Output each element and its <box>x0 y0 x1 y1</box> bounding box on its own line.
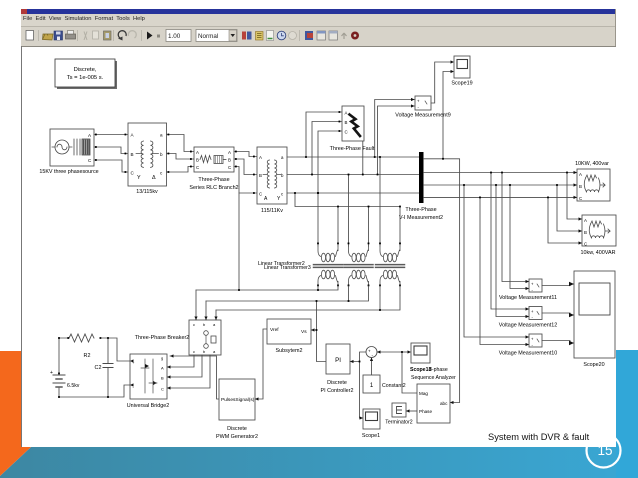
wire breaker bottom c to bridge C <box>167 355 210 388</box>
node dots source wires <box>95 134 126 173</box>
RLC branch block Three-Phase Series RLC Branch2 <box>189 147 238 191</box>
svg-text:Discrete: Discrete <box>227 426 247 432</box>
svg-text:Discrete: Discrete <box>327 380 347 386</box>
terminator Terminator2 <box>385 403 413 426</box>
node dot PI tee <box>359 361 361 363</box>
svg-text:C2: C2 <box>95 365 102 371</box>
wire DC bottom rail <box>59 385 130 397</box>
svg-text:6.5kv: 6.5kv <box>67 383 80 389</box>
wire constant to sum <box>371 358 373 375</box>
svg-text:Three-Phase: Three-Phase <box>405 207 436 213</box>
wire phase a T2 to bus <box>287 156 419 158</box>
svg-text:Series RLC Branch2: Series RLC Branch2 <box>189 185 238 191</box>
svg-text:A: A <box>228 150 231 155</box>
scope18 <box>410 343 456 381</box>
orange left bar <box>0 351 31 476</box>
source V1 15KV three phase source <box>39 129 98 175</box>
arrowhead scope18 input <box>408 350 412 353</box>
transformer TR1 13/115kv <box>128 123 167 195</box>
arrowhead PWM input <box>255 397 259 400</box>
riser VM abc sense <box>443 159 460 403</box>
subsystem Subsytem2 <box>267 319 311 354</box>
svg-text:A: A <box>196 150 199 155</box>
wire T1 b to RLC B <box>167 154 195 160</box>
svg-text:A: A <box>345 111 348 116</box>
breaker Three-Phase Breaker2 <box>135 320 221 355</box>
node dots LT line taps <box>317 156 401 207</box>
powergui block Discrete Ts <box>55 59 117 89</box>
wire fault tap B <box>312 122 342 175</box>
arrowhead scope1 input <box>360 416 364 419</box>
svg-text:B: B <box>345 120 348 125</box>
svg-text:PWM Generator2: PWM Generator2 <box>216 434 258 440</box>
svg-text:R2: R2 <box>84 353 91 359</box>
svg-text:Scope1: Scope1 <box>362 433 380 439</box>
cyan block right <box>616 350 638 478</box>
node dot scope19 riser junction <box>442 158 444 160</box>
wire PWM gate feedback <box>170 356 219 399</box>
node dots VM9 taps <box>374 156 379 175</box>
window canvas left border <box>21 46 22 447</box>
svg-text:Universal Bridge2: Universal Bridge2 <box>127 403 170 409</box>
wire RLC A to T2 A <box>234 152 257 157</box>
wire bus to load1 B <box>424 184 578 186</box>
svg-text:Voltage Measurement12: Voltage Measurement12 <box>499 323 557 329</box>
linear transformer LT2 <box>344 246 373 286</box>
wire Mag to sum <box>377 352 417 393</box>
constant Constant2 <box>363 375 406 393</box>
svg-text:B: B <box>228 158 231 163</box>
svg-text:PI: PI <box>335 357 341 364</box>
sense riser VM11 minus <box>510 185 529 289</box>
arrowhead terminator input <box>406 409 410 412</box>
svg-text:g: g <box>161 356 163 361</box>
svg-text:C: C <box>228 165 231 170</box>
sense riser VM12 minus <box>496 185 529 317</box>
VM10 voltage measurement10 <box>499 334 557 357</box>
wire load2 A riser <box>567 173 582 220</box>
svg-text:Voltage Measurement10: Voltage Measurement10 <box>499 351 557 357</box>
svg-text:3-phase: 3-phase <box>429 367 448 373</box>
arrowhead bridge plus <box>130 359 134 362</box>
node dot neutral tap <box>294 192 296 194</box>
wire VM9 minus tap <box>378 106 416 175</box>
scope20 <box>574 271 615 368</box>
svg-text:c: c <box>193 322 195 327</box>
wire DC top rail <box>59 338 130 361</box>
DVR injection line 1 <box>196 286 338 290</box>
svg-text:Phase: Phase <box>419 409 432 414</box>
svg-text:B: B <box>131 152 134 157</box>
svg-text:B: B <box>161 376 164 381</box>
arrowheads breaker top <box>194 317 217 321</box>
svg-text:c: c <box>193 349 195 354</box>
svg-text:C: C <box>161 387 164 392</box>
analyzer Discrete 3-phase Sequence Analyzer <box>417 384 450 423</box>
svg-text:Vref: Vref <box>270 327 279 333</box>
window chrome right edge <box>615 9 616 46</box>
arrowhead abc input <box>450 401 454 404</box>
linear transformer LT1 <box>314 246 343 286</box>
svg-text:PulsesSignal(s): PulsesSignal(s) <box>221 397 255 403</box>
wire load2 B riser <box>557 185 582 231</box>
VM9 voltage measurement9 <box>395 96 450 119</box>
sense riser VM10 minus <box>480 197 529 344</box>
node dots T1 outputs <box>168 134 192 173</box>
wire Vref riser to PWM input <box>255 329 267 399</box>
arrowheads load1 inputs <box>574 171 578 199</box>
wire RLC B to T2 B <box>234 159 257 175</box>
node dots sense taps <box>463 172 511 199</box>
page number circle <box>587 434 621 468</box>
arrowhead Vs input <box>311 328 315 331</box>
svg-text:A: A <box>584 218 587 223</box>
VM12 voltage measurement12 <box>499 307 557 329</box>
svg-text:A: A <box>579 172 582 177</box>
svg-text:C: C <box>345 130 348 135</box>
svg-text:abc: abc <box>440 401 448 406</box>
window chrome <box>21 9 616 14</box>
wire fault bottom to phase b <box>362 141 364 175</box>
wire breaker top a <box>195 290 197 320</box>
sense riser VM10 plus <box>464 185 529 337</box>
node dots Vs feed <box>316 300 318 331</box>
arrowhead bridge minus <box>130 383 134 386</box>
svg-text:Sequence Analyzer: Sequence Analyzer <box>411 375 456 381</box>
arrowheads load2 inputs <box>579 217 583 244</box>
node dots load taps <box>547 172 568 199</box>
node dots fault taps <box>305 111 364 194</box>
wire VM11 to scope20 <box>542 284 574 286</box>
svg-text:b: b <box>160 152 163 157</box>
wire tee to scope18 <box>402 351 408 353</box>
wire VM9 out to scope19 input1 <box>431 62 451 103</box>
toolbar icons <box>21 27 616 46</box>
node dots RLC outputs <box>235 151 255 194</box>
arrowhead gate input <box>170 354 174 357</box>
wire bus riser to scope19 input2 <box>424 72 451 159</box>
svg-text:a: a <box>160 133 163 138</box>
sum block <box>366 347 377 358</box>
svg-text:Constant2: Constant2 <box>382 383 406 389</box>
svg-text:C: C <box>584 242 587 247</box>
wire tee to scope1 <box>360 362 364 419</box>
resistor R2 <box>69 334 94 359</box>
wire phase b T2 to bus <box>287 174 419 176</box>
wire LT3 primary risers <box>380 157 400 246</box>
DVR injection line 2 <box>206 286 369 301</box>
neutral line below bus <box>295 193 400 207</box>
wire breaker bottom b to bridge B <box>167 355 202 377</box>
svg-text:Voltage Measurement9: Voltage Measurement9 <box>395 113 450 119</box>
wire breaker top c <box>215 310 217 320</box>
wire Phase to terminator <box>406 410 417 412</box>
svg-text:15KV three phasesource: 15KV three phasesource <box>39 169 98 175</box>
svg-text:Three-Phase Breaker2: Three-Phase Breaker2 <box>135 335 190 341</box>
scope19 <box>451 56 472 87</box>
wire RLC C to T2 C <box>234 167 257 194</box>
svg-text:Mag: Mag <box>419 391 428 396</box>
svg-text:115/11Kv: 115/11Kv <box>261 208 283 214</box>
svg-text:C: C <box>259 192 262 197</box>
wire VM9 plus tap <box>375 100 415 158</box>
arrowheads VM inputs <box>526 280 530 346</box>
battery B1 6.5kv <box>50 338 80 397</box>
wire RLC C down to DVR line <box>238 193 240 290</box>
arrowhead sum bottom input <box>370 358 373 362</box>
svg-text:10kw, 400VAR: 10kw, 400VAR <box>581 250 616 256</box>
VM11 voltage measurement11 <box>499 279 557 301</box>
PWM generator block PulsesSignal <box>216 379 258 440</box>
wire VM12 to scope20 <box>542 313 574 315</box>
load2 10kw 400VAR <box>581 215 616 256</box>
svg-text:Ts = 1e-005 s.: Ts = 1e-005 s. <box>67 75 104 81</box>
wire source C to T1 C <box>94 160 128 172</box>
svg-text:B: B <box>584 230 587 235</box>
svg-text:Discrete,: Discrete, <box>74 67 97 73</box>
bridge Universal Bridge2 <box>127 354 170 409</box>
sense riser VM12 plus <box>491 173 529 310</box>
svg-text:Y: Y <box>137 175 141 181</box>
wire source B to T1 B <box>94 147 128 154</box>
arrowheads scope19 inputs <box>451 60 455 73</box>
caption <box>488 432 589 442</box>
svg-text:A: A <box>259 155 262 160</box>
svg-text:B: B <box>196 158 199 163</box>
wire breaker bottom a to bridge A <box>167 355 194 367</box>
svg-text:Voltage Measurement11: Voltage Measurement11 <box>499 295 557 301</box>
node dots LT terminals <box>317 243 401 287</box>
wire fault tap A <box>306 112 342 157</box>
load1 10KW 400var <box>575 161 610 201</box>
transformer TR2 115/11Kv <box>257 147 287 214</box>
wire LT2 primary risers <box>349 175 369 247</box>
svg-text:C: C <box>579 196 582 201</box>
svg-text:10KW, 400var: 10KW, 400var <box>575 161 609 167</box>
node dot Mag tee <box>401 351 403 353</box>
node dots DC circuit <box>58 337 109 398</box>
wire VM10 to scope20 <box>542 341 574 344</box>
svg-text:Linear Transformer3: Linear Transformer3 <box>264 265 311 271</box>
svg-text:Three-Phase Fault: Three-Phase Fault <box>330 146 375 152</box>
node dots DVR lines <box>238 289 381 311</box>
svg-text:Three-Phase: Three-Phase <box>198 177 229 183</box>
svg-text:13/115kv: 13/115kv <box>136 189 158 195</box>
arrowhead sum right input <box>377 350 381 353</box>
scope1 <box>362 409 380 439</box>
svg-text:PI Controller2: PI Controller2 <box>321 388 354 394</box>
bus bar V-I Measurement2 <box>399 152 443 221</box>
svg-text:Subsytem2: Subsytem2 <box>276 348 303 354</box>
wire Vs feed from DVR line <box>311 301 326 362</box>
wire LT1 primary risers <box>318 193 338 246</box>
svg-text:V-I Measurement2: V-I Measurement2 <box>399 215 443 221</box>
arrowheads into bridge <box>167 365 171 389</box>
arrowheads scope20 inputs <box>569 282 574 345</box>
wire source A to T1 A <box>94 134 128 136</box>
svg-text:C: C <box>196 165 199 170</box>
svg-text:Δ: Δ <box>152 175 156 181</box>
svg-text:A: A <box>161 366 164 371</box>
svg-text:B: B <box>259 173 262 178</box>
sense riser VM11 plus <box>502 173 529 282</box>
svg-text:Vs: Vs <box>301 329 307 335</box>
wire phase c T2 to bus <box>287 192 419 194</box>
wire T1 c to RLC C <box>167 167 195 173</box>
wire bus to load1 A <box>424 172 578 174</box>
capacitor C2 <box>95 338 113 397</box>
DVR injection line 3 <box>216 286 400 310</box>
arrowhead PI input <box>350 360 354 363</box>
svg-text:B: B <box>579 184 582 189</box>
arrowheads VM9 inputs <box>411 98 415 108</box>
wire breaker top b <box>205 301 207 320</box>
wire sum to PI <box>350 352 366 362</box>
svg-text:+: + <box>50 370 53 376</box>
linear transformer LT3 <box>376 246 405 286</box>
fault block Three-Phase Fault <box>330 106 375 152</box>
svg-text:Terminator2: Terminator2 <box>385 420 413 426</box>
svg-text:Scope20: Scope20 <box>583 362 604 368</box>
wire T1 a to RLC A <box>167 135 195 152</box>
svg-text:Scope19: Scope19 <box>451 81 472 87</box>
wire bus to load1 C <box>424 196 578 198</box>
bottom teal bar <box>0 447 638 478</box>
PI block Discrete PI Controller2 <box>321 344 354 394</box>
wire load2 C riser <box>548 197 582 243</box>
wire fault tap C <box>318 131 342 193</box>
